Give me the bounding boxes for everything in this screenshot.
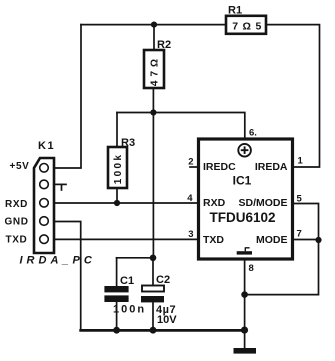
svg-text:3: 3	[188, 229, 193, 240]
svg-text:IRDA_PC: IRDA_PC	[20, 255, 96, 267]
wire R2 top	[153, 25, 155, 50]
node bus / C2	[150, 327, 157, 334]
wire IC pin 8 down to bus	[244, 259, 246, 330]
svg-text:K1: K1	[38, 140, 55, 152]
wire IC pin 7 to right vertical	[245, 240, 319, 295]
wire K1 pin 2 stub tick	[61, 184, 63, 190]
svg-text:RXD: RXD	[203, 197, 226, 209]
node Vcc R2/R3/pin6	[150, 109, 156, 115]
resistor R1	[226, 5, 266, 34]
wire +5V vertical from K1 pin 1	[54, 25, 81, 168]
connector K1	[34, 140, 55, 253]
node top rail / R2	[151, 22, 157, 28]
svg-text:+5V: +5V	[10, 161, 30, 172]
svg-text:4: 4	[187, 193, 193, 204]
IC U1 : IC1 TFDU6102 body	[199, 139, 293, 259]
svg-text:TXD: TXD	[6, 235, 28, 246]
node R3 / RXD	[114, 200, 120, 206]
wire Vcc node horizontal R3 top to IC pin 6	[117, 113, 245, 139]
svg-text:TFDU6102: TFDU6102	[209, 210, 275, 225]
svg-text:6.: 6.	[249, 128, 257, 139]
svg-text:5: 5	[297, 194, 303, 205]
wire C1 branch horizontal	[117, 257, 153, 259]
svg-text:2: 2	[188, 157, 193, 168]
ground symbol bottom right	[234, 348, 257, 354]
wire R2 bottom down to capacitor junction	[152, 88, 154, 258]
ground glyph inside IC pin 8	[237, 247, 252, 254]
wire +5V top rail left segment	[81, 24, 226, 26]
node bus / C1	[113, 327, 120, 334]
svg-text:MODE: MODE	[256, 234, 288, 246]
wire ground bus bottom	[81, 329, 246, 332]
capacitor C1	[104, 275, 146, 316]
svg-text:8: 8	[249, 263, 254, 274]
svg-text:7: 7	[297, 229, 302, 240]
wire top rail R1 right then down to IREDA pin 1	[266, 25, 320, 167]
wire R3 top stub	[116, 113, 118, 148]
svg-text:100k: 100k	[113, 153, 124, 184]
wire K1 pin 2 stub	[54, 183, 66, 185]
svg-text:GND: GND	[5, 217, 29, 228]
wire IC pin 2 stub	[190, 166, 198, 168]
svg-text:C1: C1	[120, 275, 134, 287]
svg-text:10V: 10V	[157, 314, 177, 326]
svg-text:IC1: IC1	[233, 174, 252, 188]
wire C2 bottom	[152, 302, 154, 330]
resistor R2	[144, 39, 171, 88]
wire ground stub	[244, 330, 246, 348]
wire C1 bottom	[116, 302, 118, 330]
svg-text:7Ω5: 7Ω5	[232, 21, 266, 33]
svg-text:IREDA: IREDA	[255, 161, 288, 173]
node bus / pin8 / ground	[241, 327, 248, 334]
svg-text:TXD: TXD	[203, 234, 224, 246]
wire TXD line K1 to IC pin 3	[54, 238, 199, 240]
svg-text:IREDC: IREDC	[203, 161, 236, 173]
svg-text:1: 1	[298, 156, 304, 167]
wire R3 bottom to RXD line	[116, 188, 118, 203]
svg-text:C2: C2	[156, 274, 170, 286]
wire RXD line K1 to IC pin 4	[54, 202, 199, 204]
wire C1 top	[116, 258, 118, 286]
svg-text:SD/MODE: SD/MODE	[238, 197, 287, 209]
svg-text:R1: R1	[228, 5, 242, 17]
svg-text:100n: 100n	[113, 304, 146, 316]
resistor R3	[108, 137, 135, 188]
svg-text:47Ω: 47Ω	[150, 55, 161, 86]
node pin5 / pin7	[315, 237, 321, 243]
svg-text:RXD: RXD	[5, 199, 28, 210]
wire C2 top	[152, 258, 154, 286]
wire GND from K1 pin 4 down to bus	[54, 222, 81, 331]
wire IC pin 5 to right vertical	[293, 204, 319, 241]
capacitor C2 (polarized)	[141, 274, 177, 326]
svg-text:R2: R2	[157, 39, 171, 51]
power symbol circled plus on pin 6	[238, 144, 251, 157]
node C1/C2 branch	[150, 254, 157, 261]
svg-text:R3: R3	[121, 137, 135, 149]
node pin8 / pin7 line	[241, 291, 248, 298]
